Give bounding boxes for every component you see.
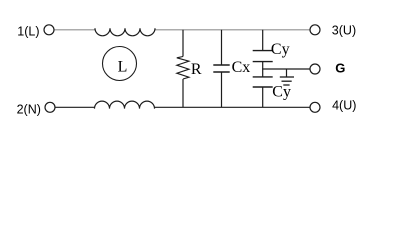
terminal 4(U) circle [310, 102, 320, 112]
label Cy top [271, 41, 290, 58]
capacitor Cy bottom [253, 69, 273, 107]
terminal 3(U) circle [310, 25, 320, 35]
svg-text:Cx: Cx [232, 59, 251, 76]
label L [118, 58, 128, 75]
terminal G circle [310, 64, 320, 74]
inductor L bottom winding [95, 101, 155, 108]
svg-text:3(U): 3(U) [332, 24, 356, 38]
label Cx [232, 59, 251, 76]
label 3(U) [332, 24, 356, 38]
label G [335, 61, 345, 76]
ground symbol [280, 69, 294, 85]
svg-text:R: R [191, 61, 202, 78]
label 1(L) [17, 24, 39, 38]
wire top rail left (gray) [54, 29, 96, 31]
svg-text:4(U): 4(U) [332, 99, 356, 113]
wire bottom rail right [155, 106, 311, 108]
capacitor Cx [213, 30, 229, 108]
label R [191, 61, 202, 78]
capacitor Cy top [253, 30, 273, 69]
wire middle node to G terminal [262, 68, 310, 70]
svg-text:1(L): 1(L) [17, 24, 39, 38]
label 2(N) [17, 102, 41, 116]
choke core circle [103, 47, 137, 81]
svg-text:Cy: Cy [271, 41, 290, 58]
svg-text:L: L [118, 58, 128, 75]
terminal 2(N) circle [45, 102, 55, 112]
label Cy bottom [272, 84, 291, 101]
terminal 1(L) circle [44, 25, 54, 35]
wire top rail right (gray) [155, 29, 311, 31]
svg-text:Cy: Cy [272, 84, 291, 101]
label 4(U) [332, 99, 356, 113]
svg-text:2(N): 2(N) [17, 102, 41, 116]
inductor L top winding [95, 28, 155, 36]
resistor R vertical leads and zigzag [177, 30, 189, 108]
wire bottom rail left [55, 106, 95, 108]
svg-text:G: G [335, 61, 345, 76]
